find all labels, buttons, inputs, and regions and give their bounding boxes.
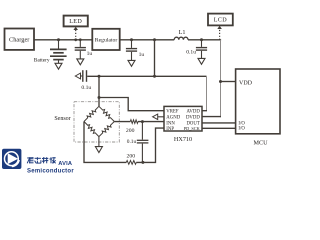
LCD block (208, 14, 233, 26)
ground bridge (95, 147, 102, 153)
wire PD_SCK to MCU (202, 127, 236, 129)
mcu block (236, 69, 280, 134)
svg-text:I/O: I/O (238, 121, 245, 126)
adc HX710 block (164, 106, 202, 131)
svg-text:200: 200 (127, 153, 136, 159)
wire bridge excitation drop (98, 76, 100, 106)
junction dot LED tap (74, 38, 77, 41)
resistor R2 200 (126, 161, 136, 165)
svg-text:0.1u: 0.1u (127, 139, 137, 145)
junction dot AVDD drop (153, 38, 156, 41)
svg-text:INN: INN (166, 122, 175, 127)
capacitor C5 0.1u filter (141, 122, 143, 140)
wire DOUT to MCU (202, 122, 236, 124)
wire AVDD drop vertical (154, 40, 156, 77)
bridge resistor top-left (84, 106, 99, 121)
wire R2 to INP pin (136, 128, 164, 162)
inductor L1 (174, 37, 188, 40)
wire C2 to ground (131, 52, 133, 61)
wire C3 to ground (201, 51, 203, 59)
wire bridge left node drop (84, 122, 126, 163)
battery junction dot (57, 38, 60, 41)
capacitor C1 1u at battery rail (79, 38, 82, 47)
svg-text:Battery: Battery (34, 58, 50, 64)
svg-text:200: 200 (126, 128, 135, 134)
svg-text:VREF: VREF (166, 110, 179, 115)
svg-text:AVDD: AVDD (187, 110, 201, 115)
svg-text:I/O: I/O (238, 127, 245, 132)
svg-text:Sensor: Sensor (54, 116, 70, 122)
junction dot VREF tap (98, 96, 101, 99)
junction dot INN filter (141, 120, 144, 123)
capacitor C4 0.1u series (vertical plates) (83, 70, 87, 82)
bridge resistor top-right (99, 106, 114, 121)
bridge resistor bottom-left (84, 122, 99, 137)
junction dot AVDD at drop (153, 75, 156, 78)
svg-text:PD_SCK: PD_SCK (184, 126, 201, 131)
svg-text:LCD: LCD (214, 17, 227, 23)
svg-text:VDD: VDD (239, 81, 253, 87)
sensor dashed box (74, 102, 119, 142)
svg-text:HX710: HX710 (174, 136, 192, 143)
bridge resistor bottom-right (99, 122, 114, 137)
wire bridge bottom to ground (98, 137, 100, 147)
wire rail after L1 (188, 39, 221, 41)
svg-text:DVDD: DVDD (186, 116, 200, 121)
wire AVDD stub (202, 110, 207, 112)
ground battery (55, 63, 62, 69)
wire AVDD rail horizontal (87, 75, 206, 77)
capacitor C2 1u at regulator output (130, 38, 133, 48)
input arrow marker AVDD rail (75, 73, 80, 79)
junction dot INP filter (141, 161, 144, 164)
svg-text:1u: 1u (139, 52, 145, 58)
wire arrow to C4 (81, 75, 83, 77)
regulator block (92, 29, 119, 50)
junction dot VDD branch (219, 80, 222, 83)
wire vertical VDD feed (gray) (220, 40, 222, 117)
dashed arrow to LED (75, 29, 77, 39)
junction dot bridge excitation (98, 75, 101, 78)
dashed arrow to LCD (219, 28, 221, 39)
svg-text:LED: LED (69, 19, 82, 25)
wire C1 to ground (79, 51, 81, 59)
wire C5 to INP rail (141, 144, 143, 163)
wire 3.3V rail: regulator to corner (120, 39, 175, 41)
battery symbol (50, 40, 67, 64)
wire VBAT rail: charger to regulator (34, 39, 92, 41)
svg-text:L1: L1 (179, 29, 186, 36)
svg-text:Semiconductor: Semiconductor (27, 169, 74, 175)
svg-text:0.1u: 0.1u (186, 49, 196, 55)
logo chinese characters (27, 157, 56, 163)
svg-text:1u: 1u (87, 51, 93, 57)
svg-text:0.1u: 0.1u (81, 85, 91, 91)
svg-text:MCU: MCU (253, 139, 268, 146)
charger block (5, 29, 35, 50)
wire AVDD vertical to pin (gray) (206, 76, 208, 110)
LED block (64, 16, 88, 27)
wire VDD branch to MCU (221, 81, 236, 83)
wire bridge right node to R1 (114, 121, 130, 123)
wire R1 to INN pin (138, 121, 164, 123)
wire DVDD stub (202, 116, 221, 118)
svg-text:Regulator: Regulator (95, 38, 118, 44)
resistor R1 200 (130, 120, 138, 124)
svg-text:AVIA: AVIA (58, 161, 72, 167)
svg-text:INP: INP (166, 127, 174, 132)
ground C3 (198, 58, 205, 64)
arrow marker AGND (158, 116, 164, 118)
ground C1 (77, 59, 84, 65)
svg-text:Charger: Charger (9, 37, 30, 44)
svg-text:AGND: AGND (166, 116, 180, 121)
capacitor C3 0.1u after L1 (200, 38, 203, 47)
logo mark AVIA (2, 149, 21, 169)
ground C2 (128, 60, 135, 66)
wire VREF elbow (99, 98, 164, 111)
